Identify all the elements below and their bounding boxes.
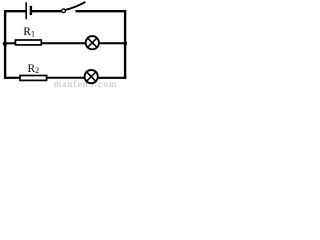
wire lamp L1 to right vertical <box>99 42 127 44</box>
wire top-left segment <box>4 10 26 12</box>
node junction left <box>3 42 8 47</box>
resistor R2 <box>20 76 47 81</box>
wire battery to switch <box>32 10 62 12</box>
wire lamp L2 to bottom-right corner <box>98 77 127 79</box>
wire bottom-left to R2 <box>4 77 20 79</box>
node junction right <box>123 42 127 46</box>
wire middle-left to R1 <box>5 42 16 44</box>
wire left vertical <box>4 10 6 79</box>
switch S (open) <box>62 2 85 12</box>
lamp L2 <box>85 70 98 83</box>
resistor R1 <box>15 40 41 45</box>
lamp L1 <box>86 36 99 49</box>
wire R2 to lamp L2 <box>47 77 84 79</box>
battery cell <box>26 2 31 19</box>
wire R1 to lamp L1 <box>42 42 86 44</box>
wire right vertical <box>124 10 126 79</box>
wire switch to top-right corner <box>76 10 127 12</box>
